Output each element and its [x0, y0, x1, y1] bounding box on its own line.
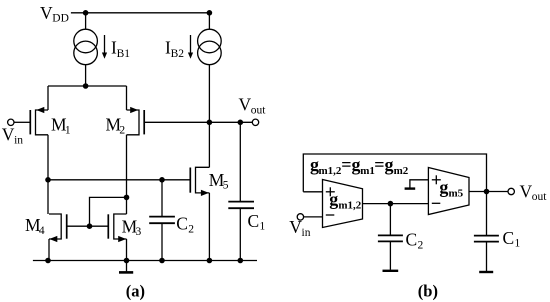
current source IB2 — [198, 29, 222, 65]
junction mirror gate strap — [87, 223, 93, 229]
junction C2 top (b) — [388, 201, 394, 207]
svg-text:g: g — [439, 177, 448, 197]
svg-text:out: out — [251, 104, 266, 116]
svg-text:C: C — [176, 214, 188, 234]
svg-text:3: 3 — [136, 226, 142, 238]
junction M3 diode connection — [124, 195, 130, 201]
transistor M4 — [49, 214, 67, 242]
svg-text:m5: m5 — [449, 188, 464, 200]
wire VDD to IB2 — [208, 13, 210, 30]
IB1 current arrow — [102, 35, 107, 59]
svg-text:out: out — [532, 191, 548, 203]
label M2 — [106, 115, 126, 137]
label C1 (b) — [503, 228, 521, 250]
output terminal Vout — [252, 119, 258, 125]
capacitor C1 (b) — [474, 192, 499, 273]
svg-text:m1: m1 — [360, 165, 375, 177]
wire M3 source to rail — [126, 239, 128, 261]
svg-text:1: 1 — [260, 221, 266, 233]
svg-text:V: V — [289, 217, 302, 237]
label gm12 = gm1 = gm2 — [310, 155, 409, 178]
label M5 — [209, 170, 229, 192]
svg-text:C: C — [248, 211, 260, 231]
svg-text:g: g — [329, 189, 338, 209]
output terminal Vout (b) — [508, 188, 514, 194]
wire first-stage output to M5 gate — [48, 179, 190, 181]
gm5 + input ground — [405, 180, 429, 189]
label M1 — [51, 115, 71, 137]
capacitor C2 (b) — [378, 204, 403, 271]
svg-text:B2: B2 — [171, 48, 185, 60]
wire output node to M5 drain — [208, 122, 210, 167]
wire gm5 output to Vout — [469, 191, 508, 193]
svg-text:m2: m2 — [394, 165, 409, 177]
transistor M3 — [108, 214, 126, 242]
tail rail wire — [48, 85, 127, 87]
label Vin (b) — [289, 217, 310, 239]
svg-text:C: C — [503, 228, 515, 248]
label C2 — [176, 214, 194, 236]
label C1 — [248, 211, 266, 233]
wire tail to M2 source — [126, 86, 128, 110]
wire Vin to gm12 - input — [304, 216, 323, 218]
label IB2 — [165, 38, 184, 60]
svg-text:(a): (a) — [126, 281, 145, 300]
IB2 current arrow — [188, 35, 193, 59]
wire VDD to IB1 — [85, 13, 87, 30]
ground rail wire — [33, 260, 257, 262]
label Vin — [2, 124, 23, 146]
svg-text:=g: =g — [341, 155, 360, 175]
junction C2 top — [159, 177, 165, 183]
svg-text:m1,2: m1,2 — [338, 200, 361, 212]
svg-text:DD: DD — [52, 12, 69, 24]
op-amp gm5 — [428, 168, 469, 215]
input terminal Vin — [8, 119, 14, 125]
wire gm12 output to gm5 - input — [363, 203, 429, 205]
wire IB1 to tail node — [85, 65, 87, 86]
svg-text:C: C — [406, 230, 418, 250]
capacitor C2 — [149, 180, 175, 261]
junction rail/C1 — [238, 258, 244, 264]
wire feedback to gm12 + input — [303, 191, 322, 193]
input terminal Vin (b) — [297, 214, 303, 220]
wire tail to M1 source — [47, 86, 49, 110]
label C2 (b) — [406, 230, 424, 252]
junction rail/M4 — [45, 258, 51, 264]
wire M2 gate to output node (Vout line) — [145, 121, 252, 123]
junction first-stage output — [45, 177, 51, 183]
svg-text:V: V — [239, 95, 252, 115]
op-amp gm12 — [323, 180, 363, 228]
transistor M2 — [127, 107, 145, 135]
label Vout — [239, 95, 267, 117]
VDD rail wire — [71, 12, 210, 14]
svg-text:1: 1 — [65, 124, 71, 136]
junction rail/C2 — [159, 258, 165, 264]
svg-text:=g: =g — [374, 155, 393, 175]
junction VDD/IB1 — [83, 10, 89, 16]
current source IB1 — [74, 29, 98, 65]
label M3 — [122, 216, 142, 238]
svg-text:(b): (b) — [418, 281, 438, 300]
svg-text:5: 5 — [223, 180, 229, 192]
junction rail/M3 ground — [124, 258, 130, 264]
junction tail node — [83, 83, 89, 89]
junction output/C1 (b) — [484, 189, 490, 195]
junction rail/M5 — [207, 258, 213, 264]
wire IB2 to output node — [208, 65, 210, 123]
feedback wire top — [303, 154, 486, 192]
svg-text:V: V — [520, 182, 533, 202]
svg-text:in: in — [302, 227, 311, 239]
net VDD label — [40, 3, 69, 25]
wire M4 gate to M3 gate — [68, 225, 109, 227]
svg-text:m1,2: m1,2 — [319, 165, 342, 177]
svg-text:2: 2 — [119, 124, 125, 136]
ground symbol — [119, 261, 133, 273]
junction output/M5 drain column — [207, 120, 213, 126]
svg-text:4: 4 — [39, 225, 45, 237]
label gm12 — [329, 189, 362, 212]
svg-text:B1: B1 — [117, 48, 131, 60]
label gm5 — [439, 177, 463, 200]
wire M2 drain to M3 drain (middle column) — [126, 135, 128, 214]
wire M1 drain to M4 drain (left column) — [47, 135, 49, 214]
junction VDD/IB2 — [207, 10, 213, 16]
label M4 — [25, 215, 45, 237]
svg-text:V: V — [2, 124, 15, 144]
transistor M5 — [190, 167, 209, 196]
wire M4 source to rail — [48, 239, 50, 261]
svg-text:2: 2 — [418, 239, 424, 251]
svg-text:in: in — [14, 134, 23, 146]
label IB1 — [111, 38, 130, 60]
transistor M1 — [14, 107, 48, 135]
svg-text:V: V — [40, 3, 53, 23]
junction output/C1 — [238, 120, 244, 126]
svg-text:2: 2 — [188, 223, 194, 235]
svg-text:1: 1 — [515, 238, 521, 250]
label Vout (b) — [520, 182, 548, 204]
wire diode connection strap — [90, 197, 127, 226]
capacitor C1 — [228, 122, 254, 260]
wire M5 source to ground rail — [208, 193, 210, 261]
